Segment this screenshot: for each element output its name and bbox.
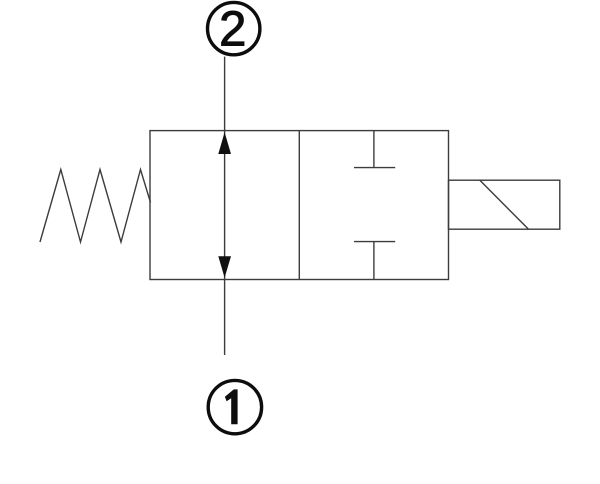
svg-text:2: 2 [219, 2, 246, 56]
valve body envelope [150, 131, 449, 280]
blocked port symbol top [354, 131, 395, 168]
spring [40, 170, 151, 243]
blocked port symbol bottom [354, 242, 395, 280]
flow arrowhead down [218, 256, 231, 278]
port label circle 2 [208, 2, 260, 56]
flow path arrow shaft [224, 131, 226, 280]
flow arrowhead up [218, 132, 231, 154]
solenoid coil box [449, 180, 560, 229]
position divider [298, 131, 300, 280]
port label circle 1 [208, 380, 261, 433]
wire valve body to port 1 [224, 280, 226, 356]
solenoid diagonal stroke [480, 180, 528, 229]
wire port 2 to valve body [224, 57, 226, 131]
